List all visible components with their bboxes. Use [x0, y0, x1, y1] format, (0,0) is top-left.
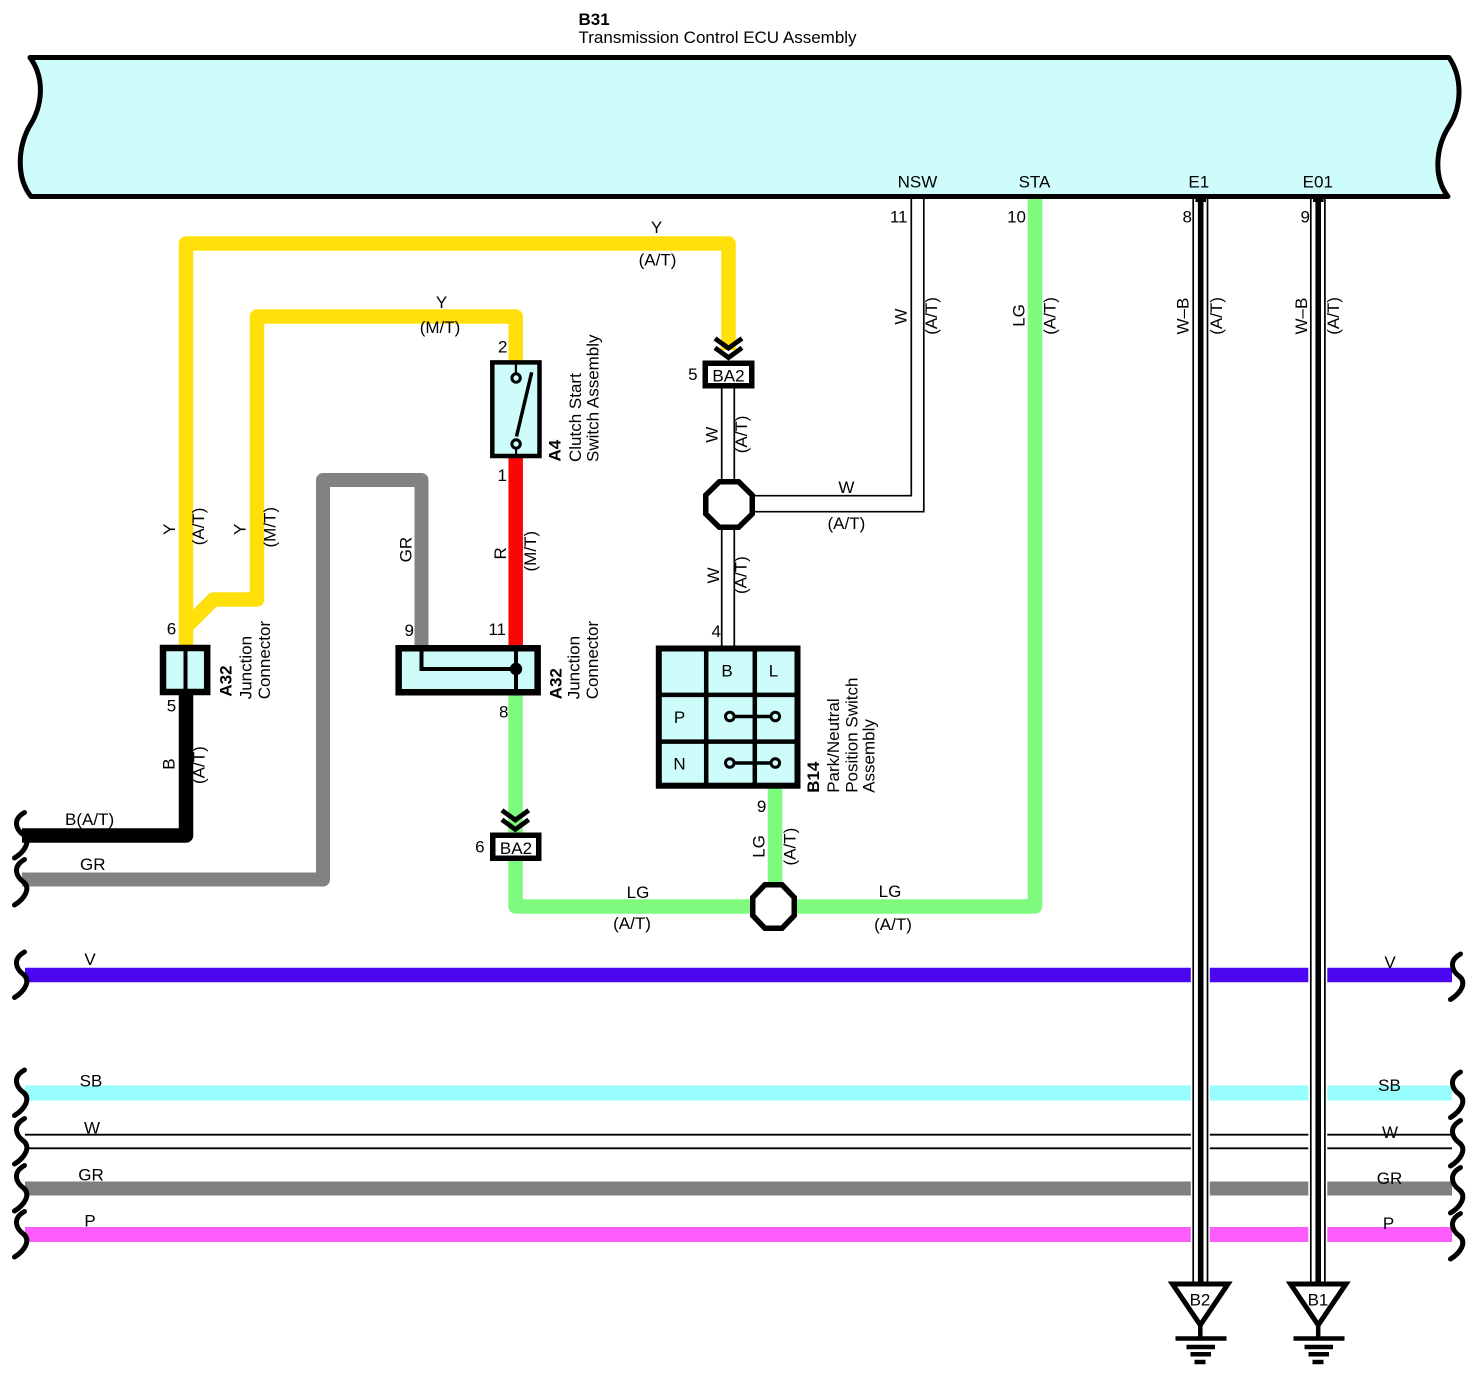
svg-text:B1: B1 — [1308, 1291, 1329, 1310]
svg-text:11: 11 — [488, 620, 506, 639]
svg-text:Transmission Control ECU Assem: Transmission Control ECU Assembly — [579, 28, 858, 47]
wire E01 thin left line — [1310, 199, 1312, 1282]
pin tab E01 — [1313, 197, 1324, 203]
junction connector A32 no.2 box — [399, 648, 538, 692]
pin tab E1 — [1195, 197, 1206, 203]
svg-text:4: 4 — [712, 622, 721, 641]
svg-text:R: R — [491, 547, 510, 559]
continuation squiggle SB left — [15, 1070, 27, 1116]
svg-text:Y: Y — [436, 293, 447, 312]
wire W from NSW pin 11 to splice, line 1 — [755, 199, 911, 496]
svg-text:(M/T): (M/T) — [420, 318, 461, 337]
svg-text:(A/T): (A/T) — [613, 914, 651, 933]
wire LG from B14 pin 9 to splice — [768, 787, 783, 884]
wire W bus line 1 — [25, 1134, 1452, 1136]
ground B1 triangle — [1291, 1284, 1347, 1325]
svg-text:9: 9 — [757, 797, 766, 816]
svg-text:Clutch Start: Clutch Start — [566, 373, 585, 462]
svg-text:11: 11 — [890, 208, 908, 227]
splice octagon (LG wire) — [753, 885, 795, 929]
svg-text:B(A/T): B(A/T) — [65, 810, 114, 829]
splice octagon (W wire) — [706, 482, 753, 528]
svg-text:B: B — [721, 662, 732, 681]
svg-text:Assembly: Assembly — [860, 719, 879, 793]
svg-text:GR: GR — [1377, 1169, 1403, 1188]
svg-text:(A/T): (A/T) — [732, 556, 751, 594]
continuation squiggle W left — [15, 1119, 27, 1165]
ground B1 bar 3 — [1309, 1352, 1330, 1357]
switch B14 N-row bridge — [734, 761, 771, 765]
ground B2 stem — [1198, 1324, 1203, 1338]
svg-text:E1: E1 — [1188, 173, 1209, 192]
junction connector A32 no.1 divider — [184, 648, 188, 692]
junction connector A32 no.2 internal link pin9 to pin11 — [422, 649, 517, 669]
svg-text:Junction: Junction — [565, 636, 584, 699]
wire W-B from E01 pin 9 to ground B1 (white underlay) — [1308, 199, 1327, 1282]
ground B2 bar 2 — [1187, 1345, 1216, 1350]
wire E1 thin left line — [1192, 199, 1194, 1282]
wire W from NSW pin 11 to splice, line 2 — [755, 199, 924, 512]
svg-text:B2: B2 — [1190, 1291, 1211, 1310]
wire Y (A/T) from junction connector pin 6 to BA2 arrow — [186, 244, 729, 646]
svg-text:LG: LG — [627, 883, 650, 902]
wire W from splice to B14 pin 4, line 1 — [721, 528, 723, 647]
svg-text:Y: Y — [651, 218, 662, 237]
svg-text:(A/T): (A/T) — [639, 251, 677, 270]
svg-text:B: B — [159, 758, 178, 769]
wire W from BA2 to splice, line 1 — [721, 388, 723, 481]
switch B14 P-row contact right — [771, 712, 780, 721]
junction connector A32 no.2 junction dot — [510, 663, 522, 675]
ground B1 bar 1 — [1294, 1336, 1345, 1341]
svg-text:LG: LG — [1010, 304, 1029, 327]
junction connector A32 no.2 internal vertical pin11 to pin8 — [514, 649, 518, 693]
svg-text:Junction: Junction — [237, 636, 256, 699]
svg-text:LG: LG — [879, 882, 902, 901]
junction connector A32 no.1 box — [163, 648, 207, 692]
svg-text:(A/T): (A/T) — [922, 297, 941, 335]
wire LG from splice to junction connector pin 8 via BA2 — [516, 693, 751, 907]
svg-text:(A/T): (A/T) — [1324, 297, 1343, 335]
svg-text:(A/T): (A/T) — [780, 828, 799, 866]
svg-text:2: 2 — [498, 338, 507, 357]
svg-text:GR: GR — [396, 537, 415, 563]
svg-text:E01: E01 — [1303, 173, 1333, 192]
svg-text:1: 1 — [498, 466, 507, 485]
svg-text:8: 8 — [1183, 207, 1192, 226]
svg-text:W–B: W–B — [1174, 298, 1193, 335]
continuation squiggle GR wire left — [15, 860, 27, 906]
wire R (M/T) from clutch switch pin 1 to junction connector pin 11 — [508, 457, 523, 646]
svg-text:BA2: BA2 — [712, 367, 744, 386]
svg-text:SB: SB — [1378, 1076, 1401, 1095]
svg-text:Park/Neutral: Park/Neutral — [824, 698, 843, 792]
svg-text:9: 9 — [405, 621, 414, 640]
svg-text:NSW: NSW — [898, 173, 938, 192]
svg-text:Connector: Connector — [583, 621, 602, 700]
switch B14 P-row bridge — [734, 715, 771, 719]
svg-text:V: V — [1384, 953, 1396, 972]
continuation squiggle GR right — [1451, 1168, 1463, 1214]
arrow into BA2 pin 5 (chevron 1) — [715, 338, 742, 348]
wire Y (M/T) from clutch switch pin 2 merging into Y (A/T) — [186, 317, 516, 628]
svg-text:W: W — [704, 567, 723, 583]
wire V bus — [25, 968, 1452, 983]
svg-text:Y: Y — [160, 524, 179, 535]
svg-text:Connector: Connector — [255, 621, 274, 700]
switch B14 grid vertical line 2 — [753, 649, 758, 787]
switch B14 Park/Neutral Position Switch box — [659, 649, 798, 786]
svg-text:5: 5 — [688, 365, 697, 384]
svg-text:(A/T): (A/T) — [189, 508, 208, 546]
svg-text:W: W — [892, 309, 911, 325]
svg-text:(A/T): (A/T) — [1207, 297, 1226, 335]
svg-text:W: W — [84, 1119, 100, 1138]
switch B14 N-row contact left — [726, 759, 735, 768]
switch A4 blade — [517, 372, 532, 436]
svg-text:LG: LG — [749, 835, 768, 858]
switch B14 grid horizontal line 1 — [659, 693, 798, 698]
switch B14 grid vertical line 1 — [704, 649, 709, 787]
ground B1 bar 4 — [1313, 1360, 1324, 1365]
ground B2 bar 1 — [1176, 1336, 1227, 1341]
switch B14 N-row contact right — [771, 759, 780, 768]
continuation squiggle GR left — [15, 1166, 27, 1212]
svg-text:W: W — [1382, 1123, 1398, 1142]
svg-text:STA: STA — [1019, 173, 1051, 192]
svg-text:(A/T): (A/T) — [1040, 297, 1059, 335]
svg-text:BA2: BA2 — [500, 839, 532, 858]
arrow into BA2 pin 5 (chevron 2) — [715, 348, 742, 358]
svg-text:5: 5 — [167, 697, 176, 716]
wire B (A/T) from left continuation to junction connector pin 5 — [22, 692, 186, 836]
svg-text:(M/T): (M/T) — [261, 507, 280, 548]
svg-text:(A/T): (A/T) — [828, 514, 866, 533]
wire SB bus — [25, 1086, 1452, 1101]
switch B14 grid horizontal line 2 — [659, 739, 798, 744]
ground B1 bar 2 — [1305, 1345, 1334, 1350]
switch A4 pin 2 internal lead — [515, 364, 517, 375]
ground B2 bar 4 — [1195, 1360, 1206, 1365]
svg-text:B31: B31 — [579, 10, 610, 29]
svg-text:B14: B14 — [804, 761, 823, 793]
svg-text:6: 6 — [167, 620, 176, 639]
wire W from splice to B14 pin 4, line 2 — [733, 528, 735, 647]
svg-text:GR: GR — [78, 1166, 104, 1185]
svg-text:SB: SB — [80, 1072, 103, 1091]
ground B1 stem — [1316, 1324, 1321, 1338]
svg-text:W–B: W–B — [1292, 298, 1311, 335]
arrow into BA2 pin 6 (chevron 1) — [502, 810, 529, 820]
continuation squiggle B wire left — [15, 813, 27, 859]
continuation squiggle P right — [1451, 1214, 1463, 1260]
svg-text:Switch Assembly: Switch Assembly — [584, 334, 603, 462]
svg-text:6: 6 — [475, 838, 484, 857]
switch A4 bottom contact circle — [512, 440, 520, 448]
svg-text:10: 10 — [1007, 207, 1026, 226]
svg-text:8: 8 — [499, 702, 508, 721]
continuation squiggle P left — [15, 1212, 27, 1258]
connector BA2 pin 5 box — [705, 363, 752, 386]
svg-text:9: 9 — [1301, 207, 1310, 226]
continuation squiggle V right — [1451, 954, 1463, 1000]
wire W bus line 2 — [25, 1147, 1452, 1149]
ECU B31 band — [20, 58, 1459, 197]
svg-text:A4: A4 — [545, 439, 564, 461]
svg-text:Y: Y — [231, 524, 250, 535]
svg-text:P: P — [84, 1212, 95, 1231]
continuation squiggle SB right — [1451, 1072, 1463, 1118]
continuation squiggle V left — [15, 952, 27, 998]
ground B2 bar 3 — [1191, 1352, 1212, 1357]
ground B2 triangle — [1173, 1284, 1229, 1325]
wire LG from STA pin 10 to splice — [797, 199, 1035, 907]
svg-text:N: N — [673, 755, 685, 774]
wire GR from left continuation to junction connector pin 9 — [22, 480, 422, 880]
svg-text:P: P — [1383, 1214, 1394, 1233]
wire E01 thin right line (A/T) — [1324, 199, 1326, 1282]
wire GR bus — [25, 1182, 1452, 1196]
svg-text:W: W — [702, 427, 721, 443]
arrow into BA2 pin 6 (chevron 2) — [502, 820, 529, 830]
svg-text:(M/T): (M/T) — [521, 531, 540, 572]
switch A4 Clutch Start Switch Assembly box — [492, 362, 539, 456]
wire W from BA2 to splice, line 2 — [733, 388, 735, 481]
svg-text:(A/T): (A/T) — [732, 416, 751, 454]
svg-text:(A/T): (A/T) — [874, 915, 912, 934]
svg-text:W: W — [838, 478, 854, 497]
wire W-B from E1 pin 8 to ground B2 (white underlay) — [1191, 199, 1210, 1282]
svg-text:P: P — [674, 708, 685, 727]
switch B14 P-row contact left — [726, 712, 735, 721]
wire E01 thick W-B line — [1315, 197, 1321, 1282]
wire E1 thin right line (A/T) — [1207, 199, 1209, 1282]
connector BA2 pin 6 box — [493, 835, 539, 858]
svg-text:(A/T): (A/T) — [189, 746, 208, 784]
svg-text:GR: GR — [80, 855, 106, 874]
wire E1 thick W-B line — [1198, 197, 1204, 1282]
switch A4 pin 1 internal lead — [515, 446, 517, 456]
switch A4 top contact circle — [512, 374, 520, 382]
wire P bus — [25, 1227, 1452, 1242]
svg-text:A32: A32 — [546, 668, 565, 699]
svg-text:V: V — [84, 950, 96, 969]
continuation squiggle W right — [1451, 1121, 1463, 1167]
svg-text:A32: A32 — [216, 665, 235, 696]
svg-text:L: L — [769, 662, 778, 681]
